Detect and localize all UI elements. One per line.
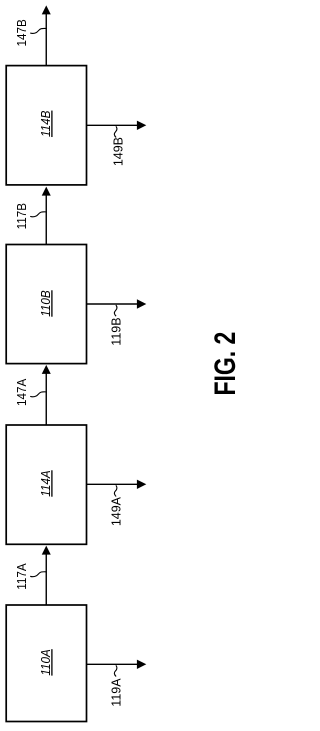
lead line 117A (30, 572, 47, 577)
lead line 117B (30, 212, 47, 217)
lead line 147A (30, 392, 47, 397)
wire branch 119B (87, 303, 139, 305)
lead line 119A (114, 665, 117, 676)
label 119B (108, 317, 123, 345)
label 110A (39, 649, 54, 675)
arrowhead 149B (137, 121, 146, 130)
wire 147A (from 114A to 110B) (45, 373, 47, 425)
svg-text:114B: 114B (39, 111, 54, 137)
lead line 149A (114, 485, 117, 496)
wire branch 149A (87, 483, 139, 485)
figure title FIG. 2 (208, 332, 241, 396)
svg-text:147A: 147A (14, 378, 29, 406)
svg-text:110B: 110B (39, 290, 54, 316)
block 110B (6, 245, 86, 364)
block 114B (6, 66, 86, 185)
arrowhead 147B (42, 5, 51, 14)
svg-text:117A: 117A (14, 563, 29, 590)
label 147A (14, 378, 29, 406)
label 147B (14, 19, 29, 46)
arrowhead 117B (42, 187, 51, 196)
arrowhead 149A (137, 480, 146, 489)
block 114A (6, 425, 86, 544)
svg-text:149B: 149B (110, 137, 125, 166)
label 149B (110, 137, 125, 166)
wire branch 149B (87, 124, 139, 126)
svg-text:114A: 114A (39, 470, 54, 496)
arrowhead 147A (42, 365, 51, 374)
lead line 147B (30, 28, 47, 33)
label 114A (39, 470, 54, 496)
lead line 119B (114, 305, 117, 316)
wire 147B (output of 114B) (45, 14, 47, 66)
label 110B (39, 290, 54, 316)
label 119A (108, 678, 123, 707)
label 117B (14, 203, 29, 229)
svg-text:119A: 119A (108, 678, 123, 707)
block 110A (6, 605, 86, 722)
arrowhead 119A (137, 660, 146, 669)
wire branch 119A (87, 663, 139, 665)
svg-text:FIG. 2: FIG. 2 (208, 332, 240, 396)
label 117A (14, 563, 29, 590)
lead line 149B (114, 126, 117, 137)
arrowhead 119B (137, 299, 146, 308)
svg-text:119B: 119B (108, 317, 123, 345)
wire 117B (from 110B to 114B) (45, 195, 47, 245)
label 149A (108, 497, 123, 527)
wire 117A (from 110A to 114A) (45, 554, 47, 605)
svg-text:110A: 110A (39, 649, 54, 675)
svg-text:147B: 147B (14, 19, 29, 46)
svg-text:149A: 149A (108, 497, 123, 527)
svg-text:117B: 117B (14, 203, 29, 229)
label 114B (39, 111, 54, 137)
arrowhead 117A (42, 546, 51, 555)
